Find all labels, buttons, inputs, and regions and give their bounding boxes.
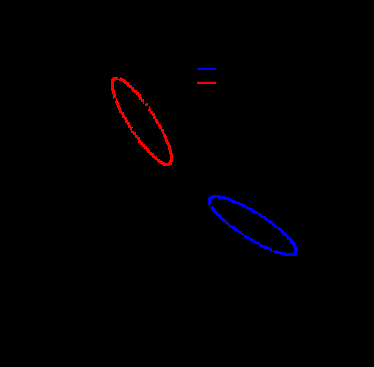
- red ellipse (dotted marker trace): [111, 76, 173, 166]
- blue ellipse (dotted marker trace): [208, 195, 298, 256]
- legend red line: [197, 82, 216, 84]
- legend blue line: [197, 68, 216, 70]
